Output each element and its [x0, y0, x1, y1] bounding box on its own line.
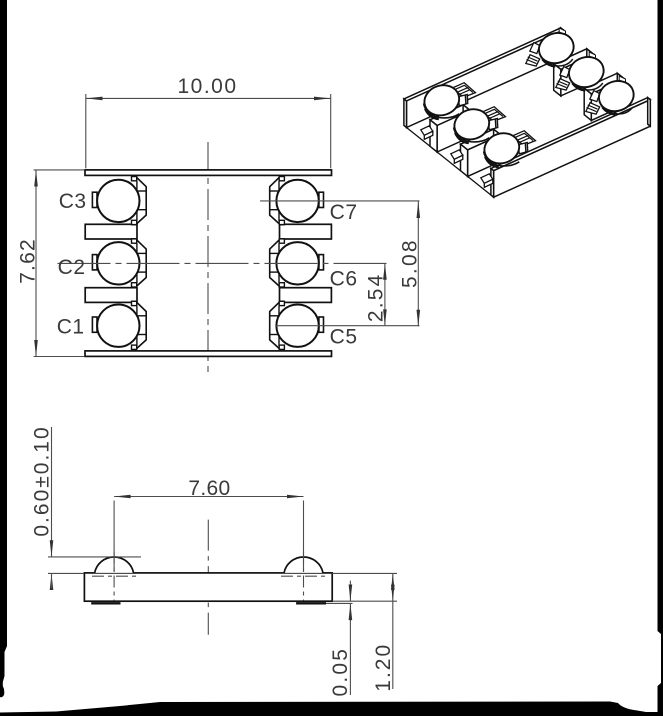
svg-text:0.60±0.10: 0.60±0.10 [30, 425, 53, 536]
contact C7 [270, 177, 324, 225]
iso rail back [404, 28, 563, 128]
dimension 1.20 [332, 572, 397, 574]
contact C6 [270, 239, 324, 287]
horizontal centerline row C2/C6 [58, 262, 389, 264]
iso rail mid-right 2 [584, 73, 624, 120]
rail mid-right 2 [280, 288, 332, 303]
iso contact C5 [586, 76, 638, 116]
svg-text:C3: C3 [59, 190, 87, 213]
iso rail mid-left 1 [430, 105, 470, 152]
iso contact C1 [480, 129, 535, 188]
dimension 0.60±0.10 [51, 427, 53, 557]
leader line C5 [276, 325, 420, 327]
foot left [91, 602, 120, 604]
dimension 2.54 [384, 263, 386, 326]
dimension 10.00 [85, 94, 87, 168]
iso contact C3 [420, 81, 475, 140]
foot right [296, 602, 326, 604]
iso rail mid-right 1 [554, 49, 594, 96]
svg-text:C1: C1 [57, 316, 85, 339]
svg-text:7.60: 7.60 [188, 477, 230, 500]
side view body [84, 573, 332, 601]
dimension 7.62 [34, 169, 84, 171]
rail mid-right 1 [280, 224, 332, 239]
top view: vertical centerline [207, 142, 209, 375]
iso rail front [491, 98, 650, 198]
contact C5 [270, 301, 324, 349]
dimension 5.08 [417, 202, 419, 327]
bump right [284, 557, 323, 573]
svg-text:1.20: 1.20 [372, 643, 395, 692]
contact C2 [92, 239, 146, 287]
dimension 7.60 [113, 501, 115, 573]
rail mid-left 1 [85, 224, 137, 239]
bump centermarks [92, 575, 137, 577]
svg-text:7.62: 7.62 [16, 238, 39, 284]
iso contact C6 [556, 52, 608, 92]
leader line C7 [260, 200, 420, 202]
rail mid-left 2 [85, 288, 137, 303]
contact C1 [92, 301, 146, 349]
svg-text:10.00: 10.00 [177, 75, 237, 98]
rail top (plan) [85, 170, 332, 176]
scan edge marks [0, 0, 7, 697]
side view: vertical centerline [207, 520, 209, 635]
svg-text:C6: C6 [330, 268, 358, 291]
svg-text:C2: C2 [58, 256, 86, 279]
bump left [95, 557, 134, 573]
iso floor edges [407, 128, 431, 147]
rail bottom (plan) [85, 351, 332, 357]
svg-text:0.05: 0.05 [329, 647, 352, 697]
iso rail mid-left 2 [461, 129, 501, 176]
svg-text:C7: C7 [330, 201, 358, 224]
dimension 0.05 [332, 600, 397, 602]
svg-text:2.54: 2.54 [364, 272, 387, 322]
contact C3 [92, 177, 146, 225]
svg-text:C5: C5 [330, 326, 358, 349]
iso contact C2 [450, 105, 505, 164]
iso contact C7 [526, 28, 578, 68]
svg-text:5.08: 5.08 [398, 238, 421, 288]
